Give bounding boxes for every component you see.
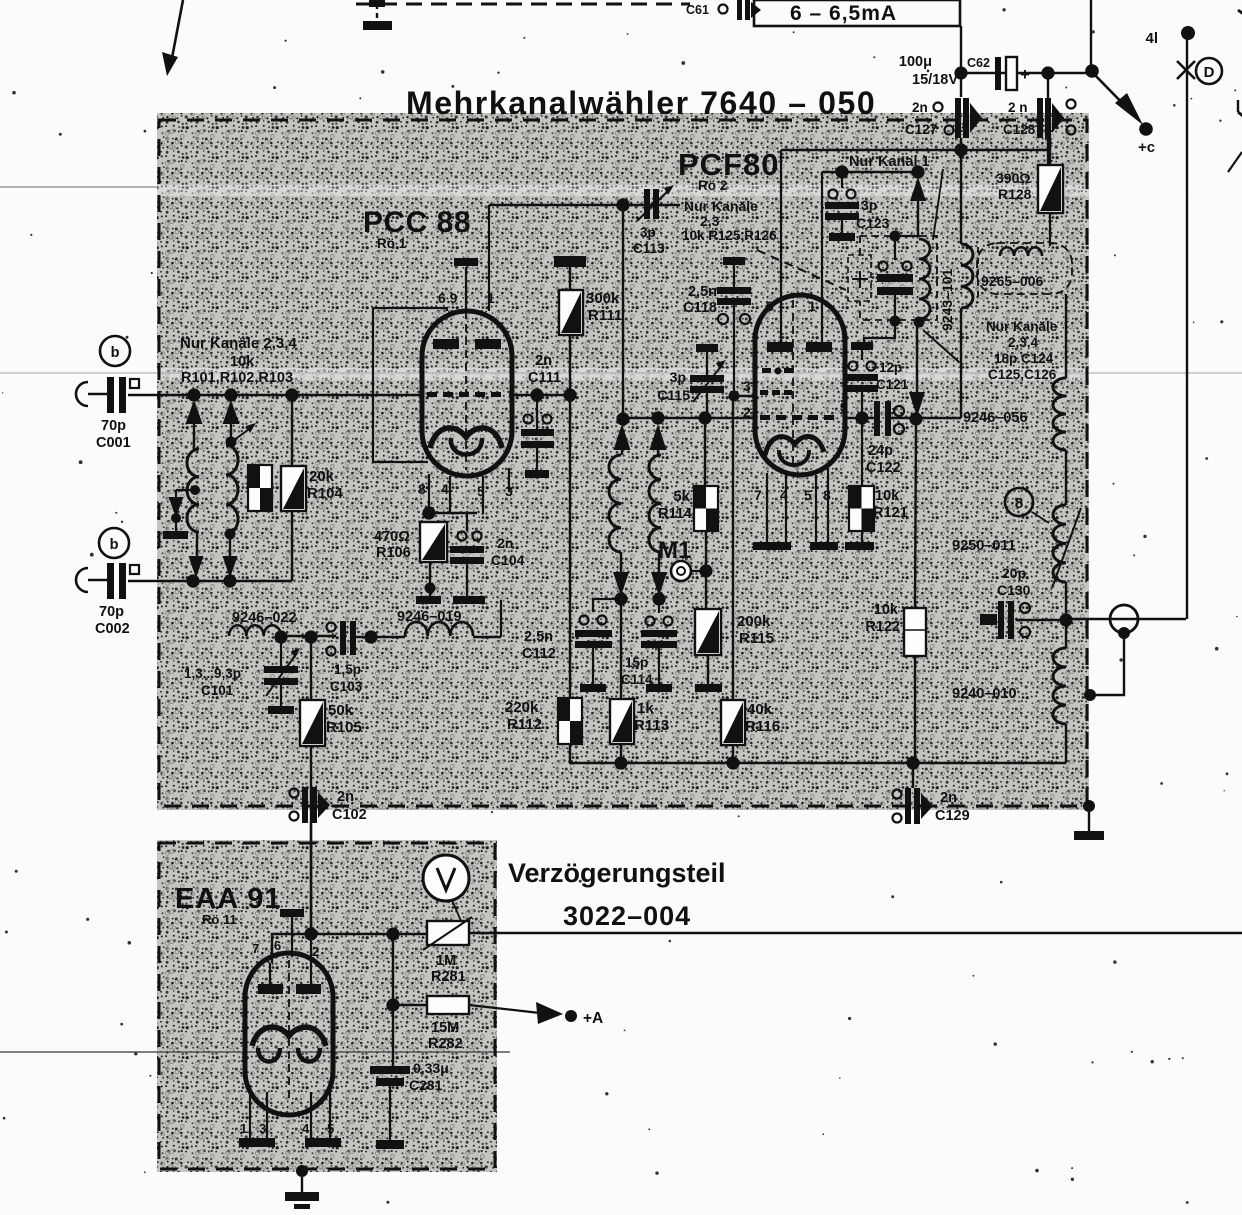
svg-text:3p: 3p	[861, 197, 877, 213]
inductor 9246-056	[1053, 378, 1066, 450]
node inductor 2 top	[226, 437, 237, 448]
transformer winding 9243-101	[919, 239, 930, 319]
wire R111 to main wire and down to R112	[569, 335, 571, 395]
contact arrow osc 1 bottom	[620, 552, 622, 572]
svg-text:C129: C129	[935, 808, 970, 824]
node at C62 right	[1041, 66, 1054, 79]
node inductor 2 bottom	[225, 529, 236, 540]
svg-text:C118: C118	[683, 300, 717, 316]
inductor input 1	[187, 449, 199, 532]
svg-text:b: b	[110, 537, 119, 553]
pin 4 wire	[785, 475, 787, 542]
capacitor C112 2.5n	[593, 599, 621, 612]
svg-text:C62: C62	[967, 56, 990, 70]
terminal bar R115	[695, 684, 722, 692]
wire pointer arrow top-left	[172, 0, 183, 58]
inductor 9246-022	[229, 625, 281, 636]
tube PCF80 grid pin3 dashes	[762, 368, 771, 373]
inductor 9240-010	[1053, 648, 1066, 724]
capacitor C113 3p trimmer	[644, 189, 650, 219]
svg-text:10k: 10k	[874, 602, 899, 618]
capacitor C001 70p	[107, 377, 114, 413]
svg-text:C121: C121	[876, 377, 909, 392]
node 2	[651, 411, 664, 424]
wire R104 to lower rail	[291, 511, 293, 581]
node C113 left	[616, 198, 629, 211]
ground symbol bottom right	[1088, 812, 1090, 831]
tube PCF80 center line	[792, 300, 794, 465]
pin 8 wire	[827, 468, 829, 542]
scan stripe artifacts	[0, 185, 1242, 196]
svg-text:3022–004: 3022–004	[563, 901, 691, 931]
node R106 bottom	[425, 583, 436, 594]
pin wires bottom EAA	[249, 1085, 251, 1138]
node supply C127	[954, 143, 967, 156]
wire R112 to bottom rail	[569, 744, 571, 763]
svg-text:C103: C103	[330, 679, 363, 694]
svg-text:2n: 2n	[535, 353, 552, 369]
node R111 junction	[563, 388, 576, 401]
svg-text:R106: R106	[376, 545, 411, 561]
svg-text:70p: 70p	[99, 604, 124, 620]
capacitor C102 2n	[290, 789, 299, 798]
tube PCF80 grid pin2 dashes	[760, 415, 770, 420]
ground symbol EAA	[301, 1177, 303, 1192]
capacitor C129 2n	[912, 763, 914, 788]
pointer dashed to transformer	[757, 250, 846, 290]
svg-text:18p C124: 18p C124	[994, 351, 1054, 366]
trimmer dashed pocket with plus	[848, 255, 871, 301]
svg-text:R104: R104	[307, 485, 344, 502]
delay block dashed border	[159, 843, 495, 1169]
meter V symbol	[423, 855, 469, 901]
wire pin1 to C113	[488, 205, 490, 311]
node osc 1	[614, 592, 627, 605]
wire C104 to coil 9246-019	[500, 600, 502, 637]
svg-text:Mehrkanalwähler 7640 – 050: Mehrkanalwähler 7640 – 050	[406, 85, 876, 121]
svg-text:2 n: 2 n	[1008, 100, 1028, 115]
connector plug lower	[76, 568, 88, 592]
resistor R282 15M	[392, 934, 394, 1066]
delay block background Verzoegerungsteil	[157, 840, 497, 1172]
contact arrow transformer top	[910, 177, 926, 201]
svg-text:+: +	[1020, 65, 1030, 84]
svg-text:b: b	[111, 345, 120, 361]
wire diagonal to +c terminal	[1091, 71, 1133, 114]
wire output loop	[1066, 618, 1186, 620]
pin 2 stub	[310, 934, 312, 963]
svg-text:C101: C101	[201, 683, 234, 698]
inductor 9243 primary	[961, 244, 973, 308]
node transformer cap top	[890, 231, 901, 242]
resistor R105 50k	[310, 637, 312, 700]
svg-text:9246–022: 9246–022	[232, 610, 297, 626]
terminal bar pin9 top	[454, 258, 478, 266]
svg-text:Nur Kanäle: Nur Kanäle	[684, 198, 758, 214]
node transformer top	[911, 165, 924, 178]
resistor R114 5k	[704, 418, 706, 486]
node C130 right	[1059, 613, 1072, 626]
svg-text:Verzögerungsteil: Verzögerungsteil	[508, 858, 726, 888]
pin 8 wire	[428, 474, 430, 513]
node C123	[835, 165, 848, 178]
svg-text:6 – 6,5mA: 6 – 6,5mA	[790, 2, 897, 25]
capacitor C121 12p	[851, 342, 873, 350]
terminal bar pins 1 3	[239, 1138, 275, 1147]
svg-text:10k R125,R126: 10k R125,R126	[682, 228, 777, 243]
svg-text:15M: 15M	[431, 1020, 459, 1036]
terminal bar C123	[829, 233, 855, 241]
oscillator coil 9265-006 dashed oval	[977, 243, 1072, 294]
svg-text:3p: 3p	[640, 225, 656, 240]
capacitor C122 24p	[874, 401, 880, 436]
tube EAA91 envelope	[245, 953, 333, 1115]
svg-text:R113: R113	[634, 717, 669, 734]
svg-text:M1: M1	[658, 537, 691, 564]
svg-text:4l: 4l	[1145, 30, 1158, 47]
svg-text:9246–056: 9246–056	[963, 410, 1028, 426]
node ground right	[1083, 800, 1095, 812]
svg-text:C001: C001	[96, 435, 131, 451]
node C129 top	[906, 756, 919, 769]
node C101 top	[274, 630, 287, 643]
tube EAA91 center line	[288, 960, 290, 1100]
tube PCC88 anode left	[433, 339, 459, 349]
svg-text:10k: 10k	[875, 488, 900, 504]
svg-text:4: 4	[302, 1121, 310, 1136]
terminal bar pins 7 4	[753, 542, 791, 550]
wire C113 to PCF80 grid	[622, 205, 624, 419]
svg-text:100μ: 100μ	[899, 54, 932, 70]
capacitor C123 3p	[841, 172, 843, 188]
svg-text:2: 2	[312, 944, 319, 959]
svg-text:Rö 1: Rö 1	[377, 236, 407, 251]
tube PCF80 envelope	[755, 295, 845, 475]
svg-text:R114: R114	[658, 506, 692, 522]
svg-text:3p: 3p	[670, 369, 686, 385]
tube PCC88 cathode	[430, 428, 502, 448]
node R282	[386, 998, 399, 1011]
svg-text:6 9: 6 9	[438, 290, 458, 306]
svg-text:1M: 1M	[436, 953, 456, 969]
svg-text:12p: 12p	[879, 360, 902, 375]
node input wire 3	[285, 388, 298, 401]
svg-text:24p: 24p	[868, 443, 893, 459]
resistor R281 1M variable	[427, 921, 469, 945]
terminal bar pins 4 5	[305, 1138, 341, 1147]
terminal bar R106	[416, 596, 441, 604]
node lower wire 2	[223, 574, 236, 587]
capacitor C114 15p	[658, 599, 660, 613]
node C103 left	[304, 630, 317, 643]
contact arrow grid node 2	[650, 424, 667, 450]
pin 5 wire	[815, 475, 817, 542]
box measurement 6-6.5mA	[754, 0, 960, 26]
terminal B circled 8	[1005, 488, 1033, 516]
node M1	[699, 564, 712, 577]
inductor 9246-019	[405, 622, 473, 636]
tuner block background Mehrkanalwaehler	[157, 113, 1089, 810]
svg-text:70p: 70p	[101, 418, 126, 434]
wire from box to C62 node	[960, 26, 962, 97]
svg-text:3: 3	[743, 378, 751, 394]
resistor R116 40k	[732, 396, 734, 700]
wire vertical 4l line	[1186, 33, 1188, 619]
wiper arrow inductor 2	[234, 427, 252, 440]
svg-text:+c: +c	[1138, 139, 1155, 156]
svg-text:9265–006: 9265–006	[981, 273, 1044, 289]
resistor R115 200k	[705, 571, 707, 609]
terminal bar tap	[163, 531, 188, 539]
svg-text:Rö 2: Rö 2	[698, 178, 727, 193]
svg-text:Rö 11: Rö 11	[202, 912, 237, 927]
node pin3	[729, 391, 740, 402]
paper noise	[793, 31, 795, 33]
svg-text:R121: R121	[873, 505, 908, 521]
capacitor C115 3p trimmer	[696, 344, 718, 352]
node C115 bottom	[698, 411, 711, 424]
svg-text:5: 5	[327, 1121, 334, 1136]
contact arrow osc 2 bottom	[658, 552, 660, 572]
wire transformer to C121	[864, 325, 895, 342]
node at C62 left	[954, 66, 967, 79]
svg-text:7: 7	[754, 487, 762, 503]
svg-text:9: 9	[840, 399, 848, 415]
svg-text:R111: R111	[588, 307, 622, 324]
svg-text:4: 4	[441, 481, 449, 497]
tube EAA91 plate right	[310, 963, 312, 984]
terminal bar C112	[580, 684, 606, 692]
wire grid loop PCC88	[373, 308, 447, 462]
node pin8	[422, 506, 435, 519]
wire dashed bus top edge	[356, 3, 690, 6]
terminal bar C101	[268, 706, 294, 714]
inductor osc 1	[621, 450, 623, 455]
node R282 branch	[386, 927, 399, 940]
svg-text:C125,C126: C125,C126	[988, 367, 1057, 382]
svg-text:50k: 50k	[328, 702, 354, 719]
inductor input 2	[226, 445, 238, 534]
svg-text:C128: C128	[1003, 122, 1036, 137]
svg-text:8: 8	[1015, 495, 1023, 512]
wire to R104	[291, 395, 293, 466]
svg-text:5k: 5k	[673, 488, 690, 505]
terminal D	[1196, 58, 1222, 84]
terminal bar pin6 top	[280, 909, 304, 917]
wire 9265 to coil chain	[1065, 294, 1067, 378]
wire 9246-019 right	[473, 636, 501, 638]
svg-text:2n: 2n	[337, 789, 354, 805]
wire cathode network	[429, 512, 477, 514]
svg-text:R115: R115	[739, 630, 774, 647]
tube PCF80 anode left	[767, 342, 793, 352]
terminal b upper	[100, 336, 130, 366]
svg-text:C104: C104	[491, 552, 525, 568]
pointer line Nur Kanal 1	[933, 169, 943, 240]
svg-text:2: 2	[743, 404, 751, 420]
svg-text:9246–019: 9246–019	[397, 609, 462, 625]
svg-text:PCC 88: PCC 88	[363, 206, 471, 239]
svg-text:C61: C61	[686, 3, 709, 17]
node anode arrow	[909, 412, 922, 425]
svg-text:1,5p: 1,5p	[334, 662, 361, 677]
terminal bar pins 5 8 R121	[810, 542, 838, 550]
svg-text:R282: R282	[428, 1036, 463, 1052]
wire anode rail EAA	[272, 934, 427, 963]
connector X to D	[1177, 61, 1195, 79]
wire coil to C130 node	[1065, 582, 1067, 620]
wire anode supply y150	[781, 149, 1048, 151]
contact arrow lower inductor 1	[196, 532, 198, 557]
capacitor transformer tuning	[894, 236, 896, 260]
tube PCC88 grid dashes pin7	[427, 392, 437, 397]
svg-text:8: 8	[418, 481, 426, 497]
resistor R121 10k	[861, 418, 863, 486]
resistor R104 20k	[281, 466, 306, 511]
pin 3 stub	[508, 468, 510, 490]
capacitor C002 70p	[107, 563, 114, 599]
svg-text:1,3...9,3p: 1,3...9,3p	[184, 666, 241, 681]
node R113 bottom	[614, 756, 627, 769]
svg-text:Nur Kanäle 2,3,4: Nur Kanäle 2,3,4	[180, 335, 297, 352]
wire antenna input upper	[128, 394, 422, 396]
pin 7 wire	[766, 473, 768, 542]
wire C103 to 9246-019	[356, 636, 405, 638]
terminal b lower	[99, 528, 129, 558]
node grid wire left	[616, 412, 629, 425]
tuner block dashed border	[159, 120, 1087, 806]
pin 4 wire	[449, 476, 451, 512]
resistor R113 1k	[620, 599, 622, 699]
wire PCF80 grid y418	[623, 417, 755, 419]
tap node inductor 1	[190, 485, 200, 495]
wire C62 to corner node	[1085, 64, 1099, 78]
core dashed line	[977, 247, 979, 303]
svg-text:300k: 300k	[586, 290, 620, 307]
svg-text:15p: 15p	[625, 655, 648, 670]
node transformer bottom	[914, 317, 925, 328]
tube PCF80 anode right	[806, 342, 832, 352]
svg-text:2,5n: 2,5n	[524, 629, 553, 645]
ground top	[369, 0, 385, 7]
node on border	[1084, 689, 1096, 701]
wire transformer arrow to pin9 line	[916, 322, 918, 392]
svg-text:C112: C112	[522, 646, 556, 662]
coupling loop circle	[1110, 605, 1138, 633]
svg-text:EAA 91: EAA 91	[175, 883, 281, 915]
tube PCF80 cathode	[765, 436, 824, 455]
node right of C103	[364, 630, 377, 643]
svg-text:20p: 20p	[1002, 565, 1026, 581]
wire C127 line with coil	[960, 138, 962, 244]
svg-text:R112: R112	[507, 716, 542, 733]
tube PCC88 envelope	[422, 311, 512, 476]
node main wire right of tube	[530, 388, 543, 401]
svg-text:9250–011: 9250–011	[952, 538, 1016, 554]
svg-text:10k: 10k	[230, 354, 255, 370]
node R116 bottom	[726, 756, 739, 769]
svg-text:40k: 40k	[747, 701, 773, 718]
node input wire 1	[187, 388, 200, 401]
wire pin3	[734, 395, 755, 397]
svg-text:9240–010: 9240–010	[952, 686, 1017, 702]
svg-text:20k: 20k	[309, 468, 335, 485]
svg-text:470Ω: 470Ω	[374, 529, 410, 545]
svg-text:C122: C122	[866, 460, 901, 476]
wire +supply rail y73	[961, 72, 1091, 74]
svg-text:R101,R102,R103: R101,R102,R103	[181, 370, 293, 386]
pin 5 wire	[482, 476, 484, 514]
svg-text:15/18V: 15/18V	[912, 72, 958, 88]
svg-text:5: 5	[804, 487, 812, 503]
svg-text:C113: C113	[633, 241, 665, 256]
wire R105 to C102	[310, 746, 312, 929]
svg-text:3: 3	[259, 1121, 266, 1136]
svg-text:C102: C102	[332, 807, 367, 823]
node transformer cap bottom	[890, 316, 901, 327]
resistor block channels	[248, 465, 272, 511]
contact arrow R102	[223, 400, 240, 424]
contact arrow tap	[169, 497, 184, 517]
capacitor C118 2.5n	[723, 257, 745, 265]
wire coil chain bottom	[1065, 724, 1067, 763]
wire pin9 to C122	[845, 417, 874, 419]
wire 9246-022 node to C103	[281, 635, 336, 637]
svg-text:1k: 1k	[637, 700, 654, 717]
tube PCC88 center line pin9	[465, 267, 467, 311]
tube PCC88 anode right	[475, 339, 501, 349]
capacitor C281 0.33u	[370, 1066, 410, 1074]
capacitor C103 1.5p	[327, 623, 336, 632]
wire pin1 rail y172	[822, 171, 920, 173]
resistor R122 10k	[915, 419, 916, 608]
svg-text:2,3: 2,3	[700, 213, 720, 229]
wire tap to ground arrow	[176, 489, 195, 491]
svg-text:7: 7	[252, 941, 259, 956]
wire C128 branch	[1047, 73, 1049, 98]
node input wire 2	[224, 388, 237, 401]
svg-text:R105: R105	[326, 719, 362, 736]
tube EAA91 plate left	[269, 963, 271, 984]
wire R281 output	[469, 932, 1242, 934]
svg-text:6: 6	[274, 938, 281, 953]
svg-text:200k: 200k	[737, 613, 771, 630]
svg-text:220k: 220k	[505, 699, 539, 716]
svg-text:1: 1	[240, 1121, 247, 1136]
svg-text:390Ω: 390Ω	[996, 170, 1031, 186]
svg-text:R128: R128	[998, 186, 1032, 202]
svg-text:2n: 2n	[497, 535, 513, 551]
node ground EAA	[296, 1165, 308, 1177]
node coupling bottom	[1118, 627, 1130, 639]
svg-text:R122: R122	[865, 619, 900, 635]
node osc 2	[652, 592, 665, 605]
wire C122 right	[891, 417, 961, 419]
svg-text:C002: C002	[95, 621, 130, 637]
diagonal wire transformer to 9246 line	[923, 330, 959, 362]
svg-text:C111: C111	[528, 370, 561, 386]
wire to 9240-010	[1065, 620, 1067, 648]
terminal bar C111	[525, 470, 549, 478]
inductor 9250-011 tuned	[1053, 505, 1066, 582]
contact arrow grid node 1	[614, 424, 631, 450]
svg-text:2,5n: 2,5n	[688, 284, 717, 300]
svg-text:C127: C127	[905, 122, 937, 137]
svg-text:2n: 2n	[940, 790, 957, 806]
capacitor C104 2n	[466, 513, 468, 531]
resistor R111 300k	[554, 256, 586, 267]
svg-text:0,33μ: 0,33μ	[413, 1060, 449, 1076]
